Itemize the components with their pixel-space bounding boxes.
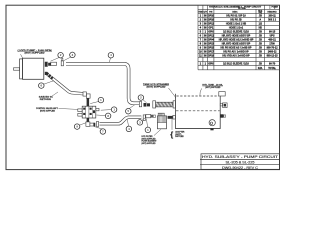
svg-text:1: 1 bbox=[274, 8, 275, 10]
svg-text:UPS: UPS bbox=[270, 35, 275, 38]
svg-text:OIL TANK: OIL TANK bbox=[238, 7, 247, 10]
svg-text:TOTAL: TOTAL bbox=[268, 67, 276, 70]
svg-text:GP11: GP11 bbox=[208, 35, 215, 38]
svg-text:1400-12: 1400-12 bbox=[268, 51, 277, 54]
svg-text:HOSE 1 /2+1: HOSE 1 /2+1 bbox=[229, 27, 244, 30]
svg-text:JB: JB bbox=[259, 39, 262, 42]
svg-text:(NOT) SUPPLIED: (NOT) SUPPLIED bbox=[25, 52, 46, 54]
svg-text:803-12-15: 803-12-15 bbox=[267, 55, 279, 58]
svg-text:GPH: GPH bbox=[208, 63, 213, 66]
svg-text:GP04: GP04 bbox=[208, 39, 215, 42]
svg-text:GP12: GP12 bbox=[208, 23, 215, 26]
svg-text:303 2 2: 303 2 2 bbox=[268, 19, 277, 22]
svg-text:200-11: 200-11 bbox=[268, 15, 276, 18]
svg-text:SL-205 & SL-225: SL-205 & SL-225 bbox=[226, 161, 255, 165]
svg-text:REMARKS: REMARKS bbox=[268, 10, 278, 13]
svg-text:1/2 BLD SLEEVE / 1/10: 1/2 BLD SLEEVE / 1/10 bbox=[223, 31, 249, 34]
svg-text:1700: 1700 bbox=[269, 43, 275, 46]
svg-text:HP, PS JB: HP, PS JB bbox=[230, 19, 242, 22]
svg-text:DESC: DESC bbox=[232, 11, 238, 13]
svg-text:GP10: GP10 bbox=[208, 15, 215, 18]
svg-text:(NOT) SUPPLIED: (NOT) SUPPLIED bbox=[142, 143, 156, 145]
svg-text:JB: JB bbox=[259, 47, 262, 50]
svg-text:400-21: 400-21 bbox=[268, 39, 276, 42]
svg-text:HYD. SUB-ASS'Y - PUMP CIRCUIT: HYD. SUB-ASS'Y - PUMP CIRCUIT bbox=[202, 155, 278, 159]
svg-text:GP16: GP16 bbox=[208, 19, 215, 22]
svg-text:HP, HYD HOSE ASSY/ SP: HP, HYD HOSE ASSY/ SP bbox=[222, 35, 251, 38]
svg-text:(NOT) SUPPLIED: (NOT) SUPPLIED bbox=[147, 86, 167, 88]
svg-text:HP, HYD HOSE ASSY/ SP: HP, HYD HOSE ASSY/ SP bbox=[222, 43, 251, 46]
svg-text:JB: JB bbox=[259, 55, 262, 58]
svg-text:JB: JB bbox=[259, 15, 262, 18]
svg-text:90-15: 90-15 bbox=[269, 31, 276, 34]
svg-text:DWG-90422 - REV C: DWG-90422 - REV C bbox=[222, 166, 259, 170]
svg-text:RETURN: RETURN bbox=[40, 99, 52, 101]
svg-text:HOSE 1 /2+2 1 HB: HOSE 1 /2+2 1 HB bbox=[226, 23, 247, 26]
svg-text:GP17: GP17 bbox=[208, 51, 215, 54]
svg-text:90-70: 90-70 bbox=[269, 63, 276, 66]
svg-text:JB: JB bbox=[259, 43, 262, 46]
svg-text:(NOT) SUPPLIED: (NOT) SUPPLIED bbox=[40, 111, 55, 113]
svg-text:ITEM: ITEM bbox=[198, 11, 203, 13]
svg-text:A: A bbox=[259, 19, 261, 22]
svg-text:GP15: GP15 bbox=[208, 47, 215, 50]
svg-text:HYDRAULIC SUB-ASSEMBLY - PUMP: HYDRAULIC SUB-ASSEMBLY - PUMP CIRCUIT bbox=[209, 6, 262, 9]
svg-text:GP1: GP1 bbox=[208, 27, 213, 30]
svg-text:GP19: GP19 bbox=[208, 55, 215, 58]
svg-text:HP, PS AS / 1+HHD HP: HP, PS AS / 1+HHD HP bbox=[223, 51, 249, 54]
svg-text:(NOT) SUPPLIED: (NOT) SUPPLIED bbox=[205, 87, 220, 89]
svg-text:HP, PS 02 / SP 10: HP, PS 02 / SP 10 bbox=[226, 15, 246, 18]
svg-text:900-70-12: 900-70-12 bbox=[267, 47, 279, 50]
svg-text:{: { bbox=[170, 130, 173, 139]
svg-text:JB: JB bbox=[259, 63, 262, 66]
svg-text:GP13: GP13 bbox=[208, 43, 215, 46]
svg-text:HD: HD bbox=[259, 27, 263, 30]
svg-text:JB: JB bbox=[259, 35, 262, 38]
svg-text:GPH: GPH bbox=[208, 31, 213, 34]
svg-text:N.B.: N.B. bbox=[258, 67, 263, 70]
svg-text:1/2 BLD SLEEVE / 1/10: 1/2 BLD SLEEVE / 1/10 bbox=[223, 63, 249, 66]
svg-text:JB: JB bbox=[259, 31, 262, 34]
svg-text:HP, PS HOSE AS / 2+HB HP: HP, PS HOSE AS / 2+HB HP bbox=[220, 47, 251, 50]
svg-text:SUPPLIED: SUPPLIED bbox=[175, 136, 184, 138]
svg-text:HP, HYD HOSE AS./ 2+HHD HP: HP, HYD HOSE AS./ 2+HHD HP bbox=[219, 39, 254, 42]
svg-text:JB: JB bbox=[259, 51, 262, 54]
svg-text:HP, HYD AS / 2+HHD HP: HP, HYD AS / 2+HHD HP bbox=[222, 55, 250, 58]
